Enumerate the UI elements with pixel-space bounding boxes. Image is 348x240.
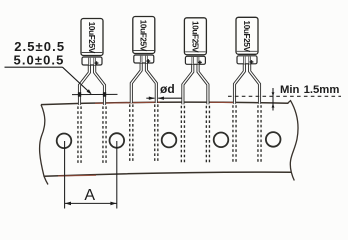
capacitor C1 bbox=[78, 19, 106, 165]
tape band group bbox=[40, 101, 298, 185]
φd left arrowhead bbox=[149, 97, 155, 100]
A dimension line bbox=[65, 202, 117, 204]
tape left torn edge bbox=[40, 105, 48, 185]
φd right arrowhead bbox=[158, 97, 164, 100]
tape top edge bbox=[41, 102, 289, 104]
svg-text:5.0±0.5: 5.0±0.5 bbox=[14, 53, 65, 68]
tick at C1 right lead bbox=[103, 92, 106, 97]
leader arrowhead bbox=[87, 89, 92, 94]
sprocket hole 1 bbox=[57, 134, 72, 149]
sprocket hole 3 bbox=[162, 133, 177, 148]
A extension line left bbox=[64, 141, 66, 209]
A left arrowhead bbox=[65, 202, 71, 206]
sprocket hole 5 bbox=[266, 132, 281, 147]
A right arrowhead bbox=[110, 202, 116, 206]
A extension line right bbox=[116, 141, 118, 209]
φd right extension line bbox=[158, 97, 181, 99]
Min dimension vertical line bbox=[272, 88, 274, 111]
φd left arrow line bbox=[146, 97, 154, 99]
capacitor C2 bbox=[130, 17, 158, 163]
leader line to lead spacing bbox=[63, 67, 91, 93]
sprocket hole 4 bbox=[214, 133, 229, 148]
svg-text:A: A bbox=[84, 187, 95, 204]
lead spacing dimension line at C1 bbox=[72, 93, 118, 95]
Min arrow down bbox=[272, 103, 275, 107]
tape right torn edge bbox=[288, 101, 299, 181]
tape bottom edge bbox=[44, 172, 292, 176]
capacitor C3 bbox=[181, 18, 209, 164]
svg-text:ød: ød bbox=[160, 82, 175, 96]
Min arrow up bbox=[272, 92, 275, 96]
capacitor C4 bbox=[233, 17, 261, 163]
reddish scan tint on tape edges bbox=[95, 102, 236, 103]
svg-text:Min 1.5mm: Min 1.5mm bbox=[280, 84, 339, 96]
bend level dashed line bbox=[228, 95, 341, 97]
tick at C1 left lead bbox=[78, 92, 81, 97]
underline for 5.0±0.5 bbox=[5, 66, 63, 68]
sprocket hole 2 bbox=[110, 133, 125, 148]
